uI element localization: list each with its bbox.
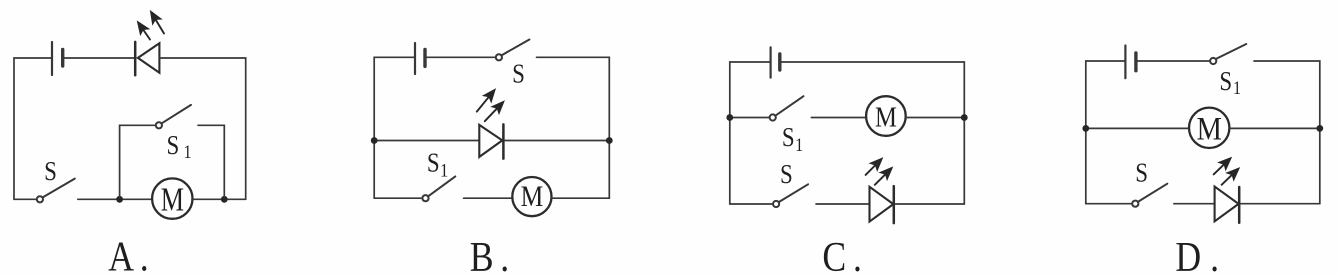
- LED D1 (B): light arrows: [477, 89, 504, 121]
- battery (A): short plate: [61, 50, 64, 67]
- wire: bottom left to motor (A): [78, 198, 152, 200]
- svg-text:S: S: [780, 160, 793, 189]
- svg-text:M: M: [1197, 110, 1222, 146]
- battery (A): long plate: [51, 42, 53, 75]
- wire: bottom-left segment (D): [1086, 203, 1132, 205]
- LED D1 (A): triangle: [138, 43, 160, 73]
- junction dot left (A): [116, 196, 123, 203]
- switch S (C): contact circle: [773, 201, 779, 207]
- LED D1 (D): triangle: [1215, 187, 1239, 222]
- battery (C): short plate: [778, 54, 781, 70]
- LED D1 (D): light arrows: [1214, 158, 1240, 185]
- svg-text:S: S: [512, 60, 525, 89]
- LED D1 (C): cathode bar: [893, 186, 896, 223]
- junction dot left (C): [726, 114, 733, 121]
- wire: motor to right vertical (D): [1229, 127, 1320, 129]
- wire: LED to bottom-right (C): [895, 203, 964, 205]
- svg-text:M: M: [521, 180, 544, 213]
- svg-text:M: M: [875, 101, 897, 133]
- wire: S1 to motor (B): [464, 197, 513, 199]
- wire: B top-left segment + left vertical: [374, 57, 414, 198]
- switch S1 (A): contact circle: [156, 122, 162, 128]
- wire: motor to bottom-right (B): [551, 197, 609, 199]
- junction dot right (D): [1316, 125, 1323, 132]
- wire: S1 branch right run + riser (A): [198, 125, 224, 197]
- wire: middle branch right (B): [505, 140, 609, 142]
- switch S1 (C): blade: [776, 96, 804, 115]
- switch S1 (B): blade: [429, 176, 456, 196]
- svg-text:M: M: [161, 180, 184, 218]
- svg-text:A.: A.: [108, 234, 148, 275]
- svg-text:D.: D.: [1175, 234, 1219, 275]
- wire: switch to top-right corner, right vertical (B): [537, 57, 610, 198]
- svg-text:S1: S1: [782, 123, 803, 155]
- wire: S to LED (D): [1174, 203, 1214, 205]
- motor M (B): circle: [512, 177, 551, 216]
- junction dot right (C): [961, 114, 968, 121]
- wire: middle branch left (B): [374, 140, 478, 142]
- switch S1 (D): contact circle: [1210, 58, 1216, 64]
- LED D1 (C): light arrows: [866, 158, 893, 185]
- wire: LED to top-right corner, right vertical (A): [159, 58, 245, 199]
- wire: C top-left segment + left vertical: [730, 62, 770, 204]
- wire: motor to right vertical (C): [906, 117, 965, 119]
- LED D1 (D): cathode bar: [1238, 187, 1241, 223]
- junction dot right (B): [606, 137, 613, 144]
- switch S (B): blade: [502, 40, 530, 56]
- switch S1 (D): blade: [1216, 44, 1246, 59]
- wire: middle branch left (D): [1086, 127, 1189, 129]
- wire: S1 to motor (C): [811, 117, 866, 119]
- motor M (D): circle: [1189, 108, 1229, 148]
- wire: bottom-left segment (C): [730, 203, 773, 205]
- wire: LED to bottom-right (D): [1241, 203, 1320, 205]
- wire: middle branch left stub (C): [730, 117, 769, 119]
- svg-text:S1: S1: [167, 131, 192, 162]
- svg-text:S1: S1: [1219, 67, 1241, 98]
- LED D1 (B): cathode bar: [502, 124, 505, 158]
- wire: A top-left segment: [14, 58, 51, 199]
- switch S (A): blade: [43, 179, 75, 198]
- switch S1 (B): contact circle: [422, 195, 428, 201]
- switch S1 (A): blade: [162, 105, 191, 123]
- battery (D): short plate: [1134, 53, 1137, 71]
- wire: S1 branch left riser + top run (A): [120, 125, 156, 197]
- battery (B): short plate: [423, 49, 426, 66]
- wire: D top-left segment + left vertical: [1086, 61, 1125, 204]
- wire: bottom-left segment (B): [374, 197, 422, 199]
- junction dot left (B): [371, 137, 378, 144]
- junction dot right (A): [221, 196, 228, 203]
- switch S (A): contact circle: [37, 196, 43, 202]
- switch S (C): blade: [779, 184, 808, 202]
- wire: battery to top-right corner, right vertical (C): [782, 62, 965, 204]
- LED D1 (C): triangle: [870, 187, 894, 222]
- motor M (A): circle: [152, 178, 192, 218]
- junction dot left (D): [1082, 125, 1089, 132]
- motor M (C): circle: [866, 96, 906, 136]
- LED D1 (A): cathode bar: [134, 42, 137, 75]
- battery (B): long plate: [414, 43, 416, 74]
- LED D1 (B): triangle: [479, 125, 502, 157]
- battery (C): long plate: [769, 47, 771, 77]
- switch S1 (C): contact circle: [770, 114, 776, 120]
- wire: motor to bottom-right (A): [192, 198, 246, 200]
- wire: battery to LED (A): [65, 57, 134, 59]
- svg-text:S: S: [44, 157, 57, 186]
- svg-text:C.: C.: [822, 234, 862, 275]
- switch S (B): contact circle: [496, 54, 502, 60]
- switch S (D): contact circle: [1132, 201, 1138, 207]
- wire: battery to switch S (B): [427, 56, 496, 58]
- wire: battery to switch S1 (D): [1138, 60, 1210, 62]
- LED D1 (A): light arrows: [138, 11, 165, 40]
- wire: S to LED (C): [816, 203, 869, 205]
- svg-text:S1: S1: [427, 149, 448, 181]
- wire: S1 to top-right corner, right vertical (D): [1254, 61, 1320, 204]
- battery (D): long plate: [1124, 46, 1126, 79]
- svg-text:S: S: [1135, 159, 1148, 188]
- svg-text:B.: B.: [470, 234, 510, 275]
- switch S (D): blade: [1138, 184, 1167, 202]
